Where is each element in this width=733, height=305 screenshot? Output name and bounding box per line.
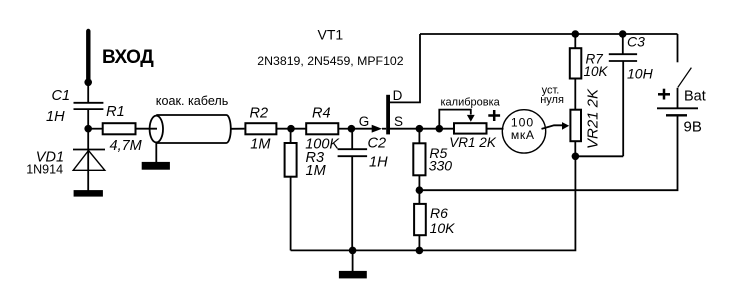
resistor R2: [245, 123, 276, 134]
svg-text:ВХОД: ВХОД: [102, 47, 154, 68]
wire: [338, 128, 351, 130]
resistor R7: [574, 34, 576, 48]
wire: [155, 142, 157, 162]
svg-text:1Н: 1Н: [46, 109, 65, 125]
svg-text:R6: R6: [430, 205, 448, 221]
diode VD1: [73, 149, 105, 151]
node VR2/C3/ground riser: [572, 153, 580, 161]
svg-text:Bat: Bat: [684, 89, 706, 105]
wire: [276, 128, 306, 130]
ground: [339, 271, 367, 279]
svg-text:G: G: [359, 114, 370, 129]
antenna input: [86, 31, 90, 80]
svg-text:10Н: 10Н: [627, 66, 654, 82]
top rail: [420, 33, 678, 35]
wire VR2 node to C3 bottom: [575, 155, 623, 157]
wire meter to VR2 wiper: [542, 125, 563, 129]
meter 100 uA: [487, 128, 504, 130]
resistor R3: [290, 131, 292, 143]
wire: [290, 177, 292, 251]
wire to battery minus: [419, 116, 677, 190]
svg-text:1М: 1М: [250, 136, 271, 152]
capacitor C2: [351, 129, 353, 149]
svg-text:VT1: VT1: [318, 27, 344, 43]
svg-text:калибровка: калибровка: [441, 96, 501, 108]
node C1/R1/VD1: [84, 125, 92, 133]
ground rail: [291, 156, 576, 250]
node C2/ground rail: [349, 247, 357, 255]
battery plus sign: [658, 93, 670, 96]
svg-text:4,7М: 4,7М: [110, 138, 143, 154]
wire: [87, 81, 89, 102]
svg-text:нуля: нуля: [540, 94, 564, 106]
svg-text:C1: C1: [52, 88, 71, 104]
battery minus plate: [666, 114, 687, 116]
node rail/C3: [619, 30, 627, 38]
node R6/ground rail: [416, 247, 424, 255]
capacitor C1: [74, 102, 104, 104]
svg-text:R1: R1: [106, 104, 125, 120]
wire: [352, 250, 354, 271]
svg-text:10K: 10K: [430, 220, 456, 236]
battery branch wire: [677, 34, 679, 62]
transistor VT1 channel bar: [386, 95, 390, 135]
node R4/C2/gate: [348, 125, 356, 133]
node R2/R3/R4: [287, 125, 295, 133]
svg-text:1Н: 1Н: [369, 154, 388, 170]
node source/R5: [416, 125, 424, 133]
coax cable: [156, 115, 231, 143]
plus sign (meter polarity): [488, 114, 500, 117]
svg-text:C2: C2: [368, 136, 387, 152]
node rail/R7: [572, 30, 580, 38]
svg-text:2N3819, 2N5459, MPF102: 2N3819, 2N5459, MPF102: [257, 54, 403, 68]
wire: [231, 128, 245, 130]
wire: [351, 157, 353, 251]
wire: [87, 110, 89, 191]
svg-text:330: 330: [429, 158, 453, 174]
node source/VR1 wiper: [436, 125, 444, 133]
svg-text:C3: C3: [627, 34, 645, 50]
gate wire with arrow: [351, 128, 373, 130]
svg-text:R2: R2: [250, 106, 269, 122]
resistor R1: [91, 128, 103, 130]
svg-text:10K: 10K: [584, 64, 609, 79]
svg-text:1N914: 1N914: [26, 162, 63, 176]
svg-text:1М: 1М: [306, 163, 327, 179]
svg-text:VR1 2K: VR1 2K: [449, 135, 497, 150]
svg-text:коак. кабель: коак. кабель: [156, 94, 229, 108]
svg-text:D: D: [393, 88, 403, 103]
capacitor C3: [622, 34, 624, 54]
svg-text:S: S: [394, 114, 403, 129]
potentiometer VR1: [454, 123, 487, 133]
svg-text:мкА: мкА: [511, 128, 535, 142]
drain wire: [390, 34, 420, 102]
svg-text:R4: R4: [312, 106, 331, 122]
battery Bat plus plate: [657, 107, 698, 109]
source wire: [390, 128, 454, 130]
switch: [678, 68, 692, 88]
node antenna/C1: [84, 79, 92, 87]
svg-text:VR21 2K: VR21 2K: [584, 88, 601, 149]
resistor R4: [306, 123, 338, 134]
svg-text:9В: 9В: [684, 118, 702, 135]
ground: [74, 190, 103, 197]
node R5/R6/battery wire: [416, 186, 424, 194]
resistor R6: [414, 204, 426, 235]
ground: [142, 162, 170, 170]
potentiometer VR2: [570, 110, 581, 142]
resistor R5: [418, 131, 420, 143]
